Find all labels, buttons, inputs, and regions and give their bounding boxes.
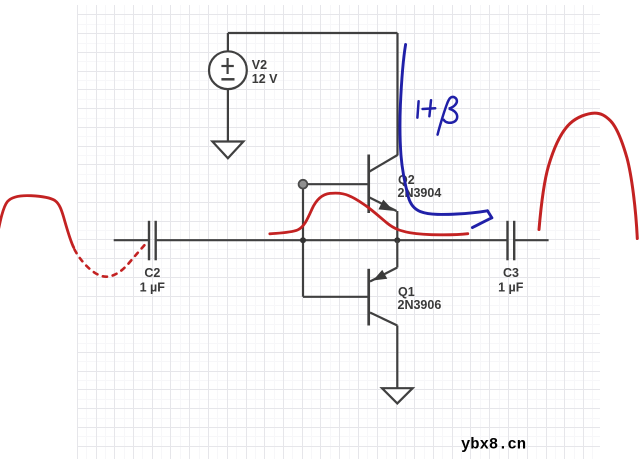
annotation: current gain flow curve (blue) xyxy=(400,45,488,215)
wire: V2 bottom lead xyxy=(227,89,229,141)
label V2 value xyxy=(252,58,278,86)
annotation: output waveform (red, right) xyxy=(539,113,637,238)
voltage source V2 xyxy=(209,51,247,89)
annotation: handwritten 1+beta (blue) xyxy=(417,97,457,135)
capacitor C3 xyxy=(508,221,549,260)
wire: Q2 collector drop xyxy=(396,33,398,155)
svg-text:V2: V2 xyxy=(252,58,267,72)
ground (below Q1) xyxy=(382,388,413,403)
svg-text:C3: C3 xyxy=(503,266,519,280)
wire: Q1 collector lead xyxy=(396,326,398,389)
annotation: base waveform (red, middle) xyxy=(270,193,468,235)
label C2 1uF xyxy=(140,266,166,294)
transistor Q1 2N3906 xyxy=(369,268,398,326)
svg-text:12 V: 12 V xyxy=(252,72,278,86)
svg-text:2N3906: 2N3906 xyxy=(398,298,442,312)
junction: emitters / rail xyxy=(394,237,400,243)
annotation: blue arrowhead xyxy=(472,211,491,228)
svg-text:1 µF: 1 µF xyxy=(140,280,166,294)
node: input port (gray terminal) xyxy=(299,180,308,189)
svg-text:ybx8.cn: ybx8.cn xyxy=(461,436,526,454)
svg-text:Q1: Q1 xyxy=(398,285,415,299)
label Q1 2N3906 xyxy=(398,285,442,312)
annotation: input waveform positive half (red, solid) xyxy=(0,196,74,248)
label Q2 2N3904 xyxy=(398,173,442,200)
wire: top rail from V2 to Q2 collector drop xyxy=(228,32,398,34)
wire: Q2 emitter lead down to output rail xyxy=(396,211,398,240)
wire: middle output rail xyxy=(156,239,508,241)
wire: Q2 base wire xyxy=(303,183,369,185)
ground (below V2) xyxy=(212,142,243,159)
transistor Q2 2N3904 xyxy=(369,155,398,214)
capacitor C2 xyxy=(114,221,156,260)
svg-text:1 µF: 1 µF xyxy=(498,280,524,294)
label C3 1uF xyxy=(498,266,524,294)
svg-text:C2: C2 xyxy=(144,266,160,280)
wire: V2 top lead xyxy=(227,33,229,52)
svg-text:2N3904: 2N3904 xyxy=(398,186,442,200)
wire: base bus vertical xyxy=(302,184,304,297)
wire: Q1 emitter lead from rail xyxy=(396,240,398,267)
annotation: input waveform negative half (red, dashed) xyxy=(75,243,147,277)
junction: base bus / rail xyxy=(300,237,306,243)
wire: Q1 base wire (bottom of bus) xyxy=(303,296,369,298)
